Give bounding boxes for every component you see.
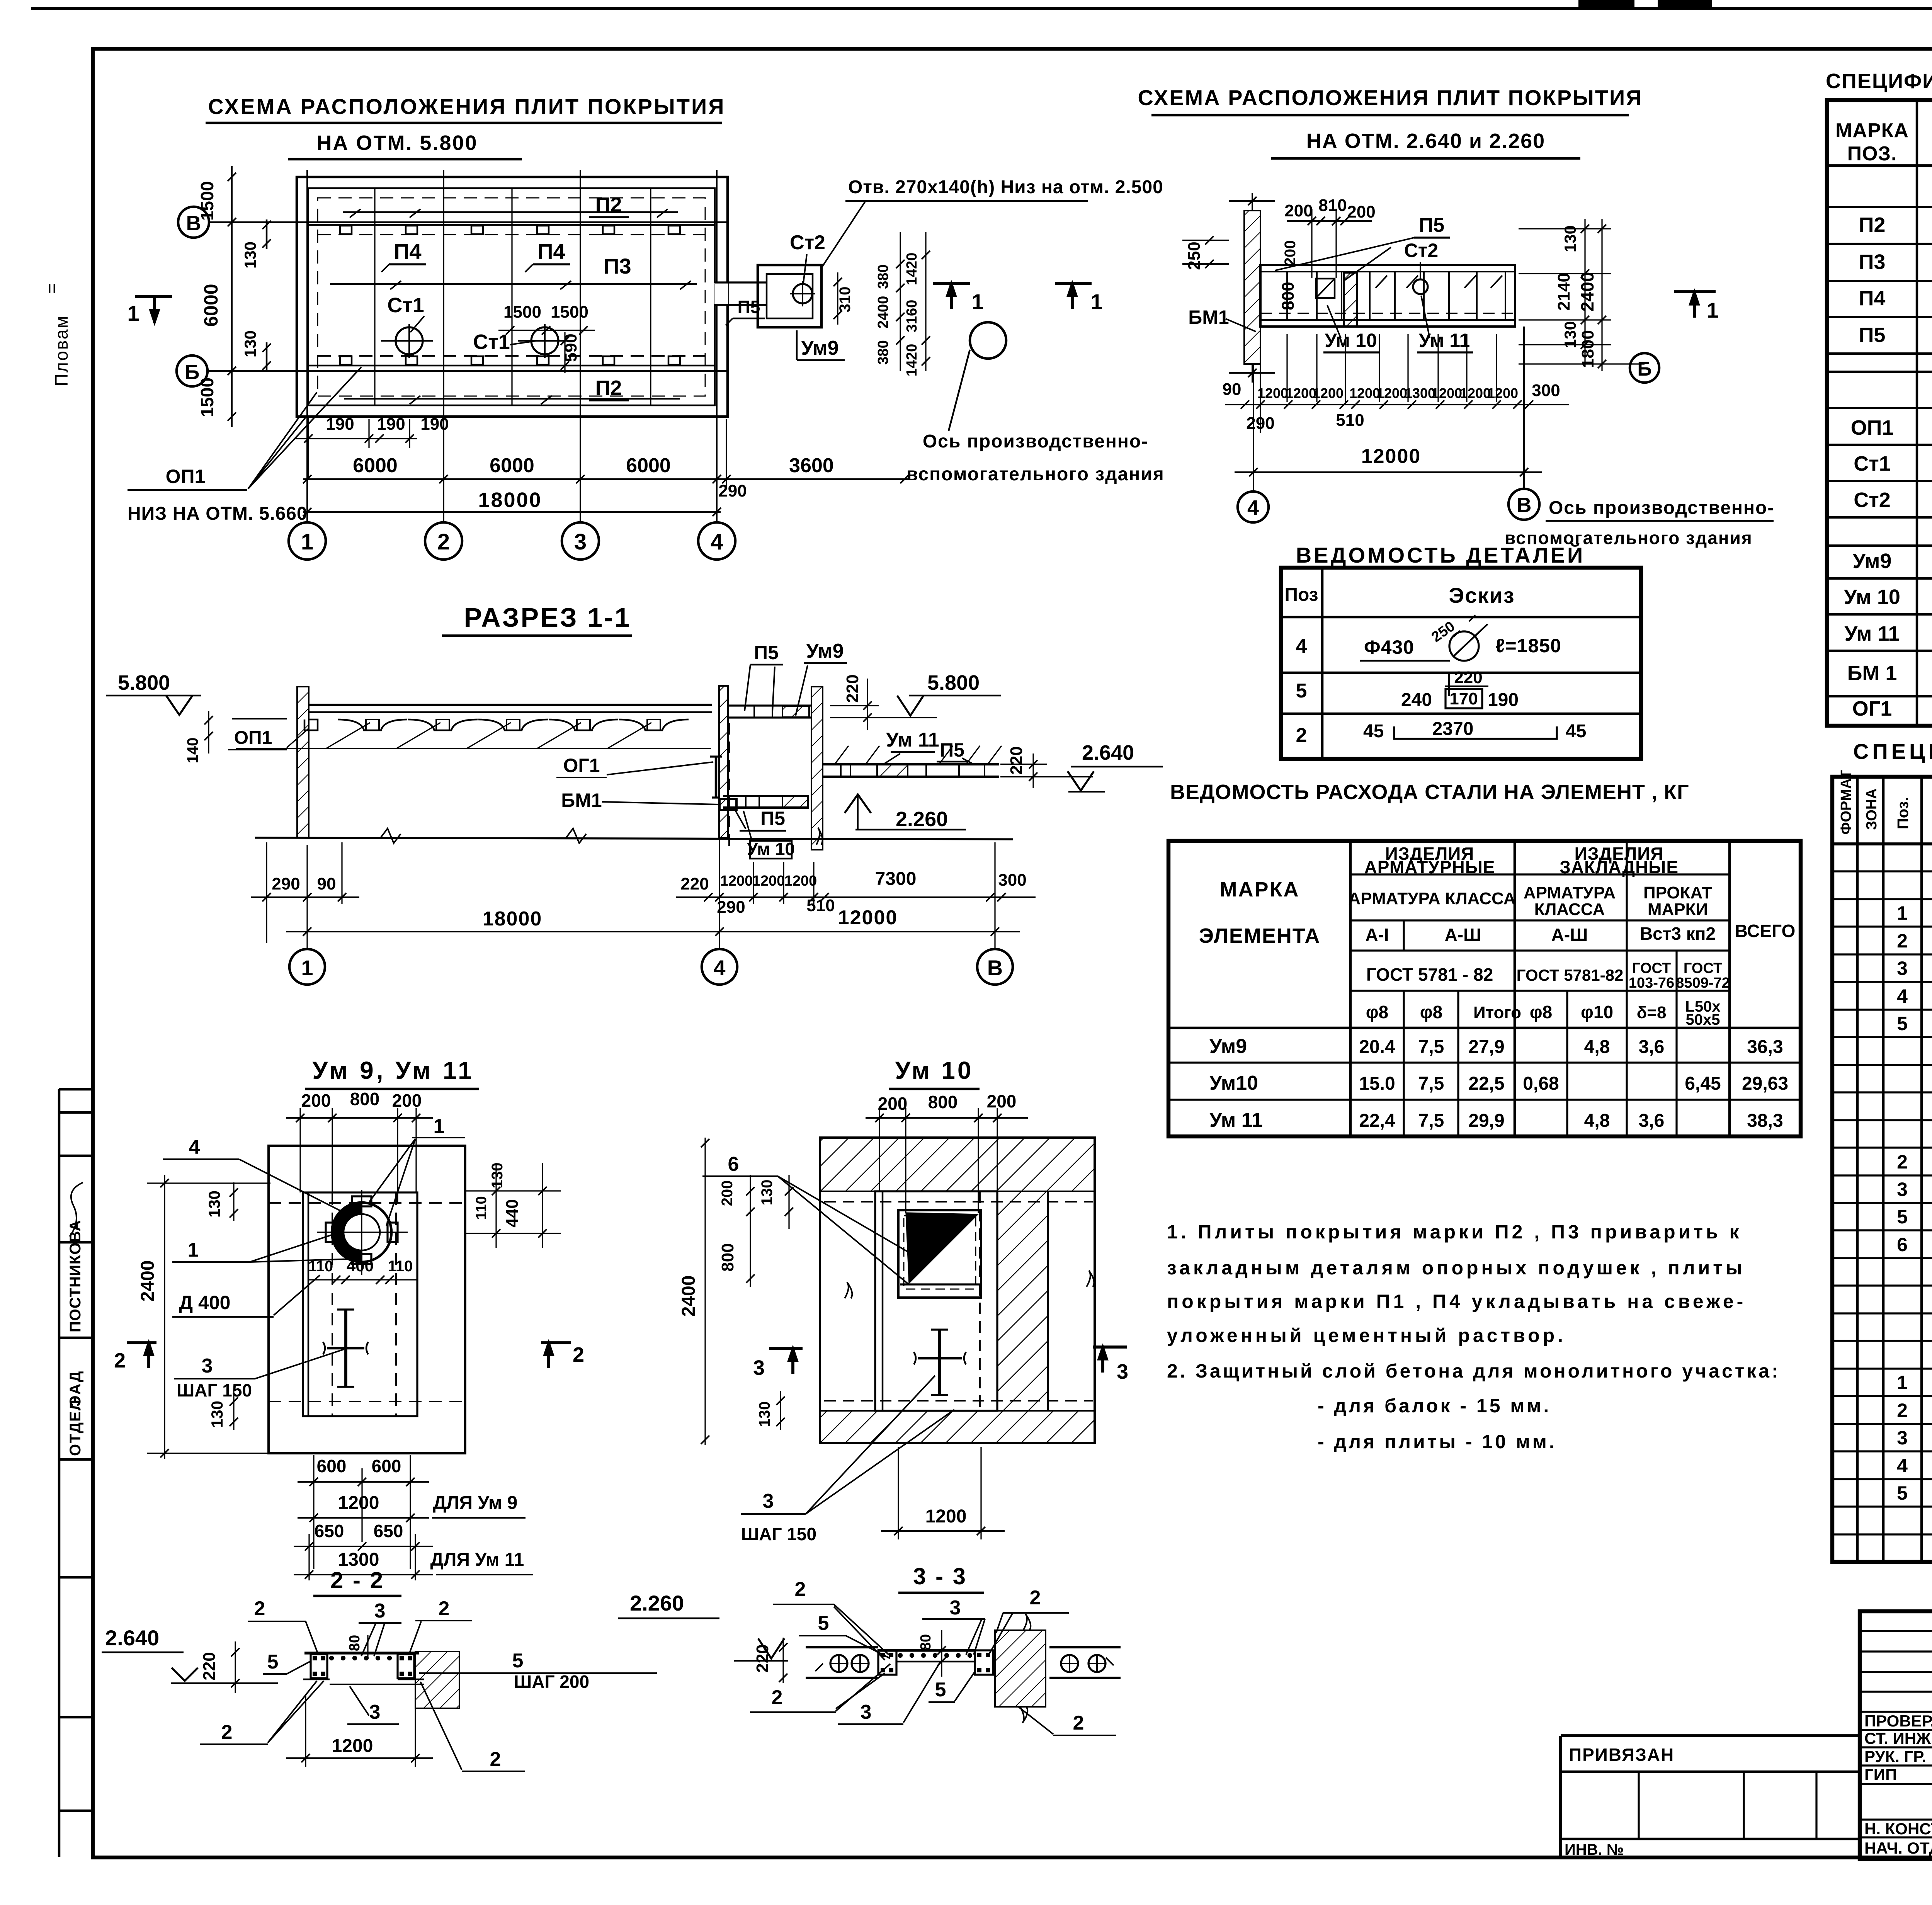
svg-text:130: 130	[241, 242, 259, 269]
svg-text:4,8: 4,8	[1584, 1111, 1610, 1131]
svg-text:12000: 12000	[1361, 445, 1421, 468]
svg-text:А-Ш: А-Ш	[1551, 925, 1588, 945]
svg-text:П2: П2	[1859, 213, 1886, 236]
svg-text:Ум 11: Ум 11	[1845, 622, 1900, 645]
svg-text:4: 4	[1247, 496, 1259, 519]
axis circle В	[178, 207, 209, 238]
sec33 rebar dots	[898, 1653, 903, 1658]
svg-text:6: 6	[1897, 1234, 1908, 1255]
svg-text:200: 200	[878, 1094, 908, 1114]
svg-text:800: 800	[1279, 282, 1298, 310]
svg-text:2.640: 2.640	[1082, 741, 1134, 764]
svg-text:2: 2	[254, 1597, 265, 1620]
svg-text:29,63: 29,63	[1742, 1073, 1788, 1094]
ось callout circle	[970, 322, 1006, 359]
svg-text:ШАГ 150: ШАГ 150	[177, 1380, 252, 1400]
svg-text:ℓ=1850: ℓ=1850	[1495, 635, 1561, 657]
svg-text:6,45: 6,45	[1685, 1073, 1721, 1094]
svg-text:1200: 1200	[1376, 385, 1407, 401]
svg-text:1200: 1200	[720, 873, 753, 889]
svg-text:5.800: 5.800	[927, 671, 980, 694]
svg-text:80: 80	[918, 1634, 934, 1650]
svg-text:4: 4	[1296, 635, 1307, 658]
svg-text:1420: 1420	[904, 253, 920, 286]
spec1 verticals	[1916, 100, 1918, 726]
svg-text:СХЕМА РАСПОЛОЖЕНИЯ ПЛИТ ПОК: СХЕМА РАСПОЛОЖЕНИЯ ПЛИТ ПОКРЫТИЯ	[1138, 85, 1643, 110]
title block left rows	[1860, 1630, 1932, 1632]
plan2 monolith Ум10 hatched	[1344, 273, 1357, 327]
svg-text:П5: П5	[754, 642, 779, 663]
svg-text:Ум 11: Ум 11	[1209, 1109, 1263, 1131]
plan2 left wall hatched	[1244, 211, 1260, 364]
um9 inner slab rect	[303, 1192, 417, 1416]
svg-text:3: 3	[763, 1490, 774, 1512]
um10 dashed lines	[824, 1201, 1093, 1203]
svg-text:4,8: 4,8	[1584, 1037, 1610, 1057]
svg-text:Отв. 270х140(h) Низ на отм. 2.: Отв. 270х140(h) Низ на отм. 2.500	[848, 177, 1163, 197]
plan1 plate span line bottom П2	[344, 398, 680, 400]
svg-text:1: 1	[434, 1115, 445, 1138]
svg-text:П5: П5	[1419, 214, 1444, 236]
svg-text:3 - 3: 3 - 3	[913, 1563, 967, 1589]
svg-text:2: 2	[1897, 1400, 1908, 1421]
svg-text:8509-72: 8509-72	[1676, 975, 1730, 991]
svg-text:200: 200	[1284, 201, 1313, 220]
sec33 channel box right	[975, 1650, 993, 1675]
svg-text:22,5: 22,5	[1468, 1073, 1504, 1094]
svg-text:АРМАТУРА: АРМАТУРА	[1524, 883, 1616, 902]
um10 ibeam symbol	[918, 1357, 962, 1360]
svg-text:1500: 1500	[551, 303, 588, 321]
svg-text:1: 1	[301, 956, 313, 980]
svg-text:4: 4	[711, 529, 723, 554]
svg-text:В: В	[1517, 493, 1532, 517]
svg-text:103-76: 103-76	[1629, 975, 1674, 991]
um9 section mark 2 left	[127, 1341, 156, 1344]
axis circle 4 plan2	[1238, 492, 1269, 522]
svg-text:ИНВ. №: ИНВ. №	[1565, 1841, 1624, 1858]
appendix stakan Ст2 circle	[793, 284, 812, 303]
svg-text:2. Защитный слой бетона для: 2. Защитный слой бетона для монолитного …	[1167, 1360, 1781, 1382]
svg-text:27,9: 27,9	[1468, 1037, 1504, 1057]
svg-text:Эскиз: Эскиз	[1449, 583, 1515, 607]
sec33 right plate with voids	[1049, 1646, 1121, 1648]
svg-text:1. Плиты покрытия марки П2: 1. Плиты покрытия марки П2 , П3 приварит…	[1167, 1221, 1742, 1243]
svg-text:3160: 3160	[904, 300, 920, 333]
svg-text:Ось производственно-: Ось производственно-	[1549, 498, 1774, 518]
svg-text:2400: 2400	[679, 1276, 699, 1317]
steel table outer	[1168, 841, 1801, 1136]
svg-text:2: 2	[439, 1597, 450, 1620]
svg-text:810: 810	[1318, 196, 1347, 215]
svg-text:220: 220	[1007, 746, 1026, 774]
svg-text:650: 650	[315, 1521, 344, 1541]
svg-text:110: 110	[388, 1258, 413, 1275]
vedomost detaley table	[1281, 568, 1641, 759]
plan1 appendix neck opening	[714, 283, 728, 304]
svg-text:2: 2	[1897, 1151, 1908, 1173]
svg-text:3: 3	[574, 529, 587, 554]
svg-text:Ум9: Ум9	[806, 640, 844, 662]
svg-text:Ум 11: Ум 11	[1419, 330, 1470, 351]
sec1 roof slab 5.800	[309, 704, 712, 706]
svg-text:310: 310	[837, 287, 854, 313]
plan1 opor pads row top	[308, 224, 715, 226]
svg-text:18000: 18000	[483, 908, 543, 930]
svg-text:=: =	[42, 283, 62, 294]
svg-text:Ум9: Ум9	[1853, 549, 1892, 573]
um9 pipe hole circle	[332, 1203, 391, 1262]
sec1 slab 2.260	[723, 795, 809, 797]
sec33 left plate with voids	[806, 1646, 878, 1648]
svg-text:2: 2	[772, 1686, 783, 1709]
svg-text:- для плиты - 10 мм.: - для плиты - 10 мм.	[1318, 1431, 1557, 1453]
axis circle 1	[289, 522, 326, 560]
sec33 channel box left	[878, 1650, 896, 1675]
svg-text:ОТДЕЛ: ОТДЕЛ	[67, 1399, 84, 1456]
svg-text:2: 2	[1030, 1587, 1041, 1609]
svg-text:АРМАТУРА КЛАССА: АРМАТУРА КЛАССА	[1348, 889, 1515, 908]
um9 outer rect	[269, 1146, 465, 1453]
svg-text:φ10: φ10	[1581, 1002, 1613, 1022]
svg-text:А-Ш: А-Ш	[1445, 925, 1481, 945]
svg-text:380: 380	[875, 340, 891, 364]
svg-text:38,3: 38,3	[1747, 1111, 1783, 1131]
svg-text:ГОСТ 5781 - 82: ГОСТ 5781 - 82	[1366, 964, 1493, 985]
svg-text:П4: П4	[1859, 287, 1886, 310]
svg-text:90: 90	[1223, 380, 1242, 399]
svg-text:Ст1: Ст1	[387, 294, 424, 317]
svg-text:НА ОТМ. 5.800: НА ОТМ. 5.800	[316, 131, 478, 155]
spec2 table outer	[1832, 777, 1932, 1562]
svg-text:4: 4	[189, 1136, 200, 1158]
svg-text:1: 1	[1090, 289, 1102, 314]
svg-text:ПРОВЕР.: ПРОВЕР.	[1864, 1712, 1932, 1730]
svg-text:Ф430: Ф430	[1364, 636, 1414, 658]
stakan Ст1 circle first	[396, 327, 423, 354]
svg-text:Вст3 кп2: Вст3 кп2	[1640, 924, 1716, 944]
plan2 axis verticals	[1253, 364, 1254, 492]
spec1 table outer	[1827, 100, 1932, 726]
svg-text:50х5: 50х5	[1686, 1011, 1720, 1028]
svg-text:Ум 10: Ум 10	[1325, 330, 1377, 351]
sec33 mid soffit line	[896, 1661, 975, 1663]
svg-text:ПОЗ.: ПОЗ.	[1847, 143, 1897, 165]
svg-text:800: 800	[928, 1092, 958, 1112]
svg-text:110: 110	[308, 1258, 333, 1275]
axis line Б	[207, 370, 728, 372]
plan2 strip bottom dashed line	[1260, 313, 1515, 314]
svg-text:7,5: 7,5	[1418, 1073, 1444, 1094]
svg-text:130: 130	[205, 1191, 223, 1218]
svg-text:290: 290	[718, 481, 747, 500]
svg-text:ВЕДОМОСТЬ РАСХОДА СТАЛИ НА: ВЕДОМОСТЬ РАСХОДА СТАЛИ НА ЭЛЕМЕНТ , КГ	[1170, 781, 1689, 804]
privyazan box	[1561, 1734, 1860, 1737]
sec22 channel box left	[311, 1654, 327, 1678]
sec1 right wall hatched	[811, 687, 823, 850]
svg-text:1: 1	[1897, 1372, 1908, 1393]
sec1 axis circle 4	[702, 949, 737, 985]
svg-text:П3: П3	[604, 254, 631, 278]
svg-text:2370: 2370	[1432, 719, 1474, 739]
svg-text:590: 590	[561, 333, 580, 362]
svg-text:3: 3	[202, 1355, 213, 1377]
plan1 outer wall	[297, 177, 728, 417]
svg-text:СПЕЦИФИКАЦИЯ К СХЕМЕ РАСПОЛО: СПЕЦИФИКАЦИЯ К СХЕМЕ РАСПОЛОЖЕНИЯ ПЛИТ П…	[1826, 70, 1932, 93]
svg-text:200: 200	[1347, 202, 1375, 221]
sec22 rebar dots	[330, 1656, 334, 1660]
svg-text:БМ1: БМ1	[1188, 306, 1229, 328]
plan2 section mark 1 right	[1674, 290, 1716, 293]
steel table verticals	[1349, 841, 1352, 1136]
svg-text:3600: 3600	[789, 454, 834, 477]
sec22 slab top line	[304, 1652, 419, 1654]
svg-text:3: 3	[950, 1597, 961, 1619]
svg-text:130: 130	[759, 1180, 776, 1206]
svg-text:уложенный цементный раство: уложенный цементный раствор.	[1167, 1325, 1566, 1346]
svg-text:П2: П2	[595, 376, 622, 400]
svg-text:220: 220	[200, 1652, 219, 1680]
svg-text:СХЕМА РАСПОЛОЖЕНИЯ ПЛИТ ПОК: СХЕМА РАСПОЛОЖЕНИЯ ПЛИТ ПОКРЫТИЯ	[208, 94, 726, 119]
svg-text:ЗАКЛАДНЫЕ: ЗАКЛАДНЫЕ	[1560, 857, 1679, 877]
svg-text:Ст1: Ст1	[1854, 452, 1890, 475]
svg-text:вспомогательного здания: вспомогательного здания	[906, 464, 1165, 485]
svg-text:ОП1: ОП1	[166, 466, 206, 487]
dim 130 top rotated	[266, 219, 268, 249]
svg-text:650: 650	[374, 1521, 403, 1541]
um10 hatched band middle right	[997, 1191, 1048, 1411]
svg-text:5: 5	[818, 1612, 829, 1635]
svg-text:2.260: 2.260	[630, 1591, 684, 1615]
sec22 bottom slab lines	[303, 1679, 330, 1680]
svg-text:2 - 2: 2 - 2	[330, 1567, 384, 1593]
um9 section mark 2 right	[541, 1341, 571, 1344]
svg-text:1: 1	[301, 529, 313, 554]
svg-text:170: 170	[1449, 689, 1478, 708]
svg-text:Ум 9, Ум 11: Ум 9, Ум 11	[312, 1056, 474, 1084]
axis circle 4	[698, 522, 735, 560]
svg-text:190: 190	[377, 415, 405, 434]
svg-text:2: 2	[795, 1578, 806, 1601]
svg-text:190: 190	[1488, 690, 1519, 710]
svg-text:РАЗРЕЗ 1-1: РАЗРЕЗ 1-1	[464, 602, 631, 633]
sec1 channel БМ1	[719, 799, 736, 810]
um10 hatched band bottom	[820, 1411, 1095, 1443]
plan2 plank joints	[1286, 272, 1288, 320]
plan1 appendix vertical dim stack	[900, 232, 901, 371]
left margin stamp column	[58, 1089, 61, 1857]
svg-text:ВЕДОМОСТЬ ДЕТАЛЕЙ: ВЕДОМОСТЬ ДЕТАЛЕЙ	[1296, 543, 1585, 567]
plan1 plate span line top П2	[343, 211, 678, 213]
svg-text:ЭАД: ЭАД	[67, 1371, 84, 1407]
sec1 op1 long line with diagonals	[236, 748, 711, 749]
svg-text:200: 200	[301, 1090, 331, 1111]
svg-text:250: 250	[1185, 242, 1204, 270]
svg-text:ГОСТ: ГОСТ	[1632, 960, 1671, 976]
svg-text:НА ОТМ. 2.640 и 2.260: НА ОТМ. 2.640 и 2.260	[1306, 129, 1545, 153]
svg-text:130: 130	[208, 1401, 226, 1428]
svg-text:ФОРМАТ: ФОРМАТ	[1838, 770, 1854, 835]
svg-text:ГИП: ГИП	[1864, 1766, 1897, 1784]
um9 dashed slab edges	[269, 1202, 465, 1204]
plan1 opor pads row bottom	[308, 365, 715, 367]
um10 right column break marks	[1047, 1191, 1049, 1411]
svg-text:2: 2	[114, 1349, 126, 1372]
sec22 channel box right	[398, 1654, 414, 1678]
svg-text:ДЛЯ Ум 11: ДЛЯ Ум 11	[430, 1550, 524, 1570]
svg-text:ОП1: ОП1	[1851, 416, 1894, 439]
svg-text:1200: 1200	[1460, 385, 1491, 401]
svg-text:НИЗ НА ОТМ. 5.660: НИЗ НА ОТМ. 5.660	[128, 503, 308, 524]
svg-text:140: 140	[184, 738, 201, 764]
svg-text:7,5: 7,5	[1418, 1111, 1444, 1131]
svg-text:400: 400	[347, 1257, 374, 1275]
svg-text:Ум 10: Ум 10	[895, 1056, 974, 1084]
section marks 1 between plans	[933, 282, 970, 285]
svg-text:ПРОКАТ: ПРОКАТ	[1643, 883, 1712, 902]
svg-text:ОГ1: ОГ1	[1852, 697, 1892, 720]
svg-text:1200: 1200	[752, 873, 785, 889]
svg-text:440: 440	[503, 1199, 522, 1227]
svg-text:290: 290	[272, 874, 300, 893]
plan1 left vertical dim line	[231, 166, 233, 427]
svg-text:3: 3	[861, 1701, 872, 1723]
um10 section mark 3 right	[1093, 1345, 1127, 1349]
svg-text:1: 1	[1706, 298, 1718, 322]
svg-text:130: 130	[489, 1163, 506, 1189]
um9 ibeam symbol	[327, 1347, 364, 1350]
svg-text:2400: 2400	[1577, 272, 1597, 311]
axis circle Б plan2	[1630, 353, 1659, 383]
svg-text:3: 3	[1897, 1427, 1908, 1449]
svg-text:П5: П5	[940, 739, 964, 761]
paper top edge line	[31, 7, 1932, 10]
svg-text:РУК. ГР.: РУК. ГР.	[1864, 1747, 1926, 1766]
svg-text:П5: П5	[1859, 323, 1886, 347]
svg-text:800: 800	[718, 1243, 737, 1271]
svg-text:6000: 6000	[353, 454, 398, 477]
svg-text:3,6: 3,6	[1639, 1111, 1665, 1131]
svg-text:380: 380	[875, 264, 891, 289]
svg-text:190: 190	[326, 415, 354, 434]
svg-text:Б: Б	[1637, 358, 1651, 380]
svg-text:1200: 1200	[338, 1493, 379, 1513]
svg-text:Д 400: Д 400	[179, 1292, 231, 1313]
um10 outer rect	[820, 1138, 1095, 1443]
svg-text:1200: 1200	[1257, 385, 1288, 401]
plan1 dashed slab edge rect	[318, 198, 705, 396]
plan2 extension verticals	[1260, 364, 1261, 433]
svg-text:3: 3	[1897, 958, 1908, 979]
section mark 1 left	[135, 295, 172, 298]
svg-text:200: 200	[987, 1091, 1017, 1111]
spec2 verticals	[1856, 777, 1859, 1562]
svg-text:5: 5	[1897, 1206, 1908, 1228]
sec1 slab 2.640 right	[823, 763, 999, 765]
svg-text:2140: 2140	[1554, 273, 1573, 311]
steel table horizontals	[1350, 873, 1730, 875]
svg-text:закладным деталям опорных п: закладным деталям опорных подушек , плит…	[1167, 1257, 1745, 1279]
svg-text:2: 2	[437, 529, 450, 554]
svg-text:600: 600	[372, 1456, 401, 1476]
svg-text:1420: 1420	[904, 344, 920, 377]
svg-text:- для балок - 15 мм.: - для балок - 15 мм.	[1318, 1395, 1551, 1417]
svg-text:130: 130	[756, 1402, 773, 1427]
svg-text:1: 1	[188, 1239, 199, 1261]
svg-text:φ8: φ8	[1530, 1002, 1553, 1022]
svg-text:3: 3	[374, 1600, 386, 1622]
svg-text:Ум 11: Ум 11	[886, 729, 939, 751]
svg-text:5: 5	[512, 1650, 524, 1672]
svg-text:Ось производственно-: Ось производственно-	[923, 431, 1148, 452]
svg-text:6000: 6000	[626, 454, 671, 477]
svg-text:Н. КОНСТ: Н. КОНСТ	[1864, 1820, 1932, 1838]
svg-text:Ст1: Ст1	[473, 330, 510, 354]
svg-text:1200: 1200	[1431, 385, 1462, 401]
svg-text:220: 220	[843, 674, 862, 702]
svg-text:ГОСТ: ГОСТ	[1684, 960, 1722, 976]
svg-text:220: 220	[680, 874, 709, 893]
svg-text:КЛАССА: КЛАССА	[1534, 900, 1605, 919]
svg-text:15.0: 15.0	[1359, 1073, 1395, 1094]
svg-text:18000: 18000	[478, 488, 542, 512]
svg-text:90: 90	[317, 874, 336, 893]
plan1 appendix walls	[758, 265, 821, 327]
svg-text:1500: 1500	[503, 303, 541, 321]
svg-text:Ст2: Ст2	[1854, 488, 1890, 512]
svg-text:φ8: φ8	[1366, 1002, 1389, 1022]
svg-text:ВСЕГО: ВСЕГО	[1735, 921, 1796, 941]
sec1 monolith Ум11 hatched	[877, 764, 908, 777]
svg-text:190: 190	[420, 415, 449, 434]
svg-text:3,6: 3,6	[1639, 1037, 1665, 1057]
um9 collar pads	[352, 1196, 371, 1206]
plan1 grid lines 1-4	[306, 170, 308, 522]
svg-text:130: 130	[241, 330, 259, 357]
svg-text:2400: 2400	[875, 296, 891, 329]
sec1 mid wall grid4 hatched	[719, 686, 728, 838]
plan2 stakan Ст2 circle	[1413, 279, 1428, 294]
svg-text:2: 2	[1897, 930, 1908, 952]
svg-text:2400: 2400	[138, 1260, 158, 1302]
sec1 monolith Ум9 hatched piece	[782, 706, 809, 717]
sec1 dashed line at wall2	[728, 723, 730, 847]
svg-text:7300: 7300	[875, 869, 917, 889]
svg-text:1200: 1200	[1487, 385, 1518, 401]
svg-text:2: 2	[490, 1748, 501, 1771]
sec33 top line center	[878, 1649, 975, 1652]
svg-text:510: 510	[806, 896, 835, 915]
axis circle 3	[562, 522, 599, 560]
svg-text:1: 1	[971, 289, 983, 314]
svg-text:5: 5	[1897, 1482, 1908, 1504]
svg-text:3: 3	[1117, 1360, 1128, 1383]
svg-text:110: 110	[473, 1196, 490, 1220]
sec1 railing ОГ1 post	[715, 756, 718, 798]
svg-text:П3: П3	[1859, 250, 1886, 274]
um10 hatched band top	[820, 1138, 1095, 1191]
svg-text:7,5: 7,5	[1418, 1037, 1444, 1057]
sec1 label Ум10 box	[750, 841, 792, 859]
svg-text:1500: 1500	[197, 181, 217, 221]
svg-text:5.800: 5.800	[118, 671, 170, 694]
svg-text:6000: 6000	[200, 284, 222, 327]
svg-text:А-I: А-I	[1365, 925, 1389, 945]
left margin signature squiggle	[70, 1182, 83, 1237]
svg-text:ЗОНА: ЗОНА	[1864, 788, 1880, 830]
svg-text:1200: 1200	[1349, 385, 1380, 401]
svg-text:45: 45	[1566, 721, 1586, 742]
